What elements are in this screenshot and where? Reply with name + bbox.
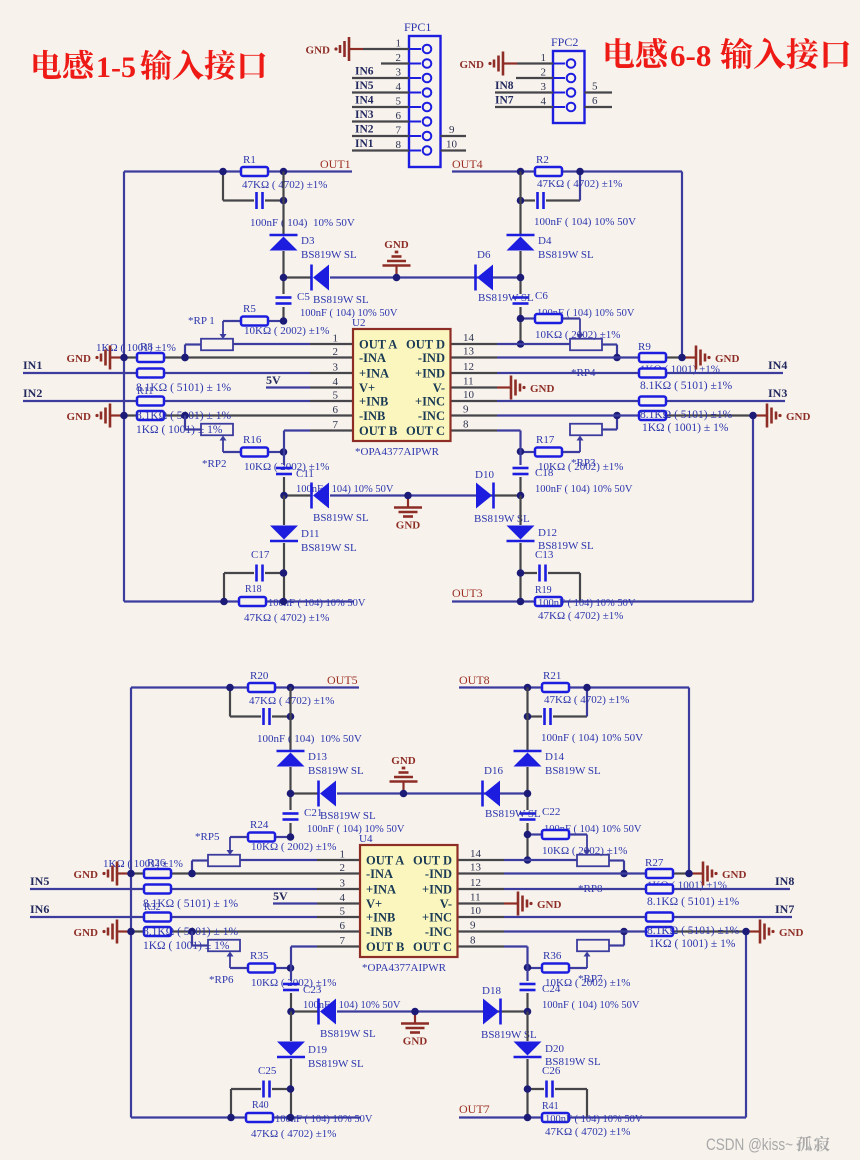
svg-text:1KΩ ( 1001) ± 1%: 1KΩ ( 1001) ± 1%: [642, 422, 729, 434]
svg-text:47KΩ ( 4702) ±1%: 47KΩ ( 4702) ±1%: [537, 178, 622, 190]
svg-text:100nF ( 104) 10% 50V: 100nF ( 104) 10% 50V: [250, 217, 355, 229]
label C17: [251, 549, 270, 561]
svg-text:13: 13: [463, 346, 475, 358]
svg-text:BS819W SL: BS819W SL: [545, 765, 601, 777]
wire right lower vertical: [752, 416, 754, 602]
svg-text:D16: D16: [484, 765, 503, 777]
svg-text:4: 4: [333, 376, 339, 388]
wire FPC2 pin3 IN8: [495, 91, 553, 93]
svg-text:+IND: +IND: [422, 883, 452, 897]
label R18 value2: [244, 612, 329, 624]
junction: [127, 870, 196, 878]
wire OUT5 top-left rail: [131, 686, 359, 688]
capacitor C6: [513, 298, 529, 304]
label D9 type: [313, 512, 369, 524]
label 8.1K row2: [143, 926, 238, 938]
op-amp U2 pin names: [359, 338, 445, 439]
wire FPC2 pin2: [516, 77, 553, 79]
junction: [524, 928, 628, 972]
label R32: [144, 902, 161, 913]
label R1: [243, 154, 256, 166]
label C25: [258, 1065, 277, 1077]
svg-text:OUT3: OUT3: [452, 586, 483, 600]
svg-text:5: 5: [396, 96, 402, 108]
junction: [181, 317, 287, 361]
label 8.1K row1: [136, 382, 231, 394]
svg-text:47KΩ ( 4702) ±1%: 47KΩ ( 4702) ±1%: [242, 179, 327, 191]
junction: [742, 928, 750, 936]
svg-text:IN7: IN7: [495, 95, 514, 107]
svg-text:OUT1: OUT1: [320, 157, 351, 171]
node OUT7: [459, 1102, 490, 1116]
svg-text:IN5: IN5: [355, 80, 374, 92]
svg-text:+INA: +INA: [359, 367, 389, 381]
wire left vertical ground bus: [123, 172, 125, 602]
node IN4 at FPC1: [355, 95, 374, 107]
svg-text:R9: R9: [638, 341, 651, 353]
label R41 value1: [545, 1114, 643, 1125]
resistor R8: [124, 353, 353, 362]
label R2 value: [537, 178, 622, 190]
ground left row1: [74, 862, 131, 886]
op-amp U2 pin numbers: [333, 332, 475, 431]
diode D4: [507, 235, 535, 251]
ground right row1: [689, 862, 747, 886]
label R9: [638, 341, 651, 353]
svg-text:5: 5: [592, 81, 598, 93]
connector FPC2 label: [551, 35, 578, 49]
svg-text:OUT8: OUT8: [459, 673, 490, 687]
wire left bus lower: [290, 1012, 292, 1118]
svg-text:6: 6: [592, 95, 598, 107]
label R5: [243, 303, 256, 315]
svg-text:4: 4: [541, 96, 547, 108]
label D17 type: [320, 1028, 376, 1040]
connector FPC2: [553, 51, 585, 123]
potentiometer *RP5: [192, 837, 240, 874]
label R35 value: [251, 977, 336, 989]
svg-text:R35: R35: [250, 950, 269, 962]
label D18 type: [481, 1029, 537, 1041]
capacitor C17 branch: [224, 573, 284, 602]
svg-text:GND: GND: [460, 59, 485, 71]
svg-text:10: 10: [470, 905, 482, 917]
svg-text:R17: R17: [536, 434, 555, 446]
svg-text:V+: V+: [366, 897, 382, 911]
svg-text:OUT C: OUT C: [413, 940, 452, 954]
node IN2 at FPC1: [355, 124, 374, 136]
label R20 value: [249, 695, 334, 707]
op-amp U4 pin numbers: [340, 848, 482, 947]
wire right bias bus upper: [519, 172, 521, 345]
resistor R35: [230, 964, 291, 973]
svg-text:R16: R16: [243, 434, 262, 446]
svg-text:5V: 5V: [273, 889, 288, 903]
svg-text:47KΩ ( 4702) ±1%: 47KΩ ( 4702) ±1%: [545, 1126, 630, 1138]
capacitor C1 branch wire: [223, 172, 284, 201]
potentiometer *RP 1: [185, 321, 233, 358]
svg-text:100nF ( 104) 10% 50V: 100nF ( 104) 10% 50V: [545, 1114, 643, 1125]
label C5 value: [300, 308, 398, 319]
junction: [120, 412, 189, 420]
resistor R13: [639, 411, 753, 420]
svg-text:BS819W SL: BS819W SL: [320, 1028, 376, 1040]
svg-text:GND: GND: [403, 1036, 428, 1048]
wire right bus lower: [526, 1012, 528, 1118]
svg-text:OUT C: OUT C: [406, 424, 445, 438]
junction: [227, 1085, 294, 1121]
svg-text:R27: R27: [645, 857, 664, 869]
node OUT1: [320, 157, 351, 171]
node IN3 at FPC1: [355, 109, 374, 121]
resistor R26: [131, 869, 360, 878]
node OUT5: [327, 673, 358, 687]
label C18: [535, 467, 554, 479]
label C5: [297, 291, 310, 303]
label *RP8: [578, 883, 603, 895]
svg-text:OUT B: OUT B: [359, 424, 397, 438]
node 5V: [266, 373, 281, 387]
potentiometer *RP8: [577, 835, 624, 874]
resistor R28: [144, 885, 171, 894]
svg-text:9: 9: [470, 920, 476, 932]
wire FPC1 pin10: [441, 149, 467, 151]
svg-text:2: 2: [541, 67, 547, 79]
label R19: [535, 585, 552, 596]
potentiometer *RP7: [577, 932, 624, 969]
potentiometer *RP3: [570, 416, 617, 453]
svg-text:3: 3: [340, 878, 346, 890]
svg-text:OUT A: OUT A: [366, 854, 404, 868]
resistor R16: [223, 448, 284, 457]
junction: [524, 684, 591, 721]
pin number 1: [541, 52, 547, 64]
svg-text:C18: C18: [535, 467, 554, 479]
label D20: [545, 1043, 564, 1055]
svg-text:GND: GND: [67, 411, 92, 423]
wire OUT7 bottom rail: [459, 1116, 746, 1118]
label D14: [545, 751, 564, 763]
svg-text:IN8: IN8: [495, 80, 514, 92]
wire IN1: [23, 372, 353, 374]
junction: [517, 315, 621, 362]
wire left bias bus upper: [289, 688, 291, 838]
diode D16: [483, 781, 501, 807]
wire left bus lower: [283, 496, 285, 602]
label R24: [250, 819, 269, 831]
capacitor C24: [520, 984, 536, 990]
svg-text:V-: V-: [440, 897, 452, 911]
node IN3: [768, 386, 787, 400]
label C6 value: [537, 308, 635, 319]
pin number 10: [446, 139, 458, 151]
capacitor C18: [513, 468, 529, 474]
label 8.1K row1: [143, 898, 238, 910]
diode D3: [270, 235, 298, 251]
wire IN2: [23, 400, 353, 402]
svg-text:R32: R32: [144, 902, 161, 913]
watermark CSDN @kiss~孤寂: [706, 1136, 830, 1154]
svg-text:8: 8: [470, 935, 476, 947]
svg-text:*RP5: *RP5: [195, 831, 220, 843]
wire FPC2 pin4 IN7: [495, 106, 553, 108]
label D11 type: [301, 542, 357, 554]
svg-text:1-5: 1-5: [96, 51, 136, 84]
svg-text:IN3: IN3: [768, 386, 787, 400]
svg-text:47KΩ ( 4702) ±1%: 47KΩ ( 4702) ±1%: [544, 694, 629, 706]
svg-text:IN4: IN4: [768, 358, 787, 372]
capacitor C19 branch wire: [230, 688, 291, 717]
node IN4: [768, 358, 787, 372]
label 1K right row2: [642, 422, 729, 434]
svg-text:OUT B: OUT B: [366, 940, 404, 954]
wire pin1: [233, 343, 353, 345]
label R18: [245, 584, 262, 595]
ground FPC2 pin1: [460, 52, 517, 76]
resistor R33: [646, 927, 746, 936]
label R24 value: [251, 841, 336, 853]
label D4 type: [538, 249, 594, 261]
label R20: [250, 670, 269, 682]
label R40: [252, 1100, 269, 1111]
diode D17: [319, 999, 337, 1025]
wire FPC1 pin7 IN2: [352, 135, 409, 137]
svg-text:5: 5: [340, 906, 346, 918]
wire FPC1 pin1: [363, 48, 409, 50]
label R19 value2: [538, 610, 623, 622]
node OUT4: [452, 157, 483, 171]
label D5 type: [313, 294, 369, 306]
svg-text:BS819W SL: BS819W SL: [301, 249, 357, 261]
svg-text:BS819W SL: BS819W SL: [485, 808, 541, 820]
pin number 7: [396, 125, 402, 137]
label 1K row2: [136, 424, 223, 436]
svg-text:-INC: -INC: [425, 925, 452, 939]
wire pin7 bus: [284, 431, 353, 496]
svg-text:6-8: 6-8: [670, 38, 711, 73]
svg-text:GND: GND: [786, 411, 811, 423]
diode D9: [312, 483, 330, 509]
svg-text:C26: C26: [542, 1065, 561, 1077]
svg-text:U2: U2: [352, 317, 365, 329]
pin number 5: [396, 96, 402, 108]
resistor R36: [528, 964, 588, 973]
pin number 4: [396, 81, 402, 93]
label R25 value: [542, 845, 627, 857]
label R1 value: [242, 179, 327, 191]
label U4 part: [362, 962, 447, 974]
label C11 value: [296, 484, 394, 495]
label D14 type: [545, 765, 601, 777]
label C6: [535, 290, 548, 302]
label R17 value: [538, 461, 623, 473]
svg-text:1KΩ ( 1001) ± 1%: 1KΩ ( 1001) ± 1%: [143, 940, 230, 952]
label D4: [538, 235, 552, 247]
svg-text:11: 11: [463, 376, 474, 388]
svg-text:OUT D: OUT D: [406, 338, 445, 352]
label 1K row2: [143, 940, 230, 952]
junction: [749, 412, 757, 420]
svg-text:10: 10: [446, 139, 458, 151]
label D19: [308, 1044, 327, 1056]
svg-text:7: 7: [396, 125, 402, 137]
label *RP3: [571, 457, 596, 469]
svg-text:BS819W SL: BS819W SL: [320, 810, 376, 822]
svg-text:-INC: -INC: [418, 409, 445, 423]
svg-text:FPC1: FPC1: [404, 20, 431, 34]
svg-text:R24: R24: [250, 819, 269, 831]
svg-text:D19: D19: [308, 1044, 327, 1056]
label D16: [484, 765, 503, 777]
label C2 value: [534, 216, 636, 228]
svg-text:IN2: IN2: [23, 386, 42, 400]
svg-text:GND: GND: [530, 383, 555, 395]
resistor R14: [639, 369, 666, 378]
svg-text:-INA: -INA: [366, 867, 393, 881]
diode D14: [514, 751, 542, 767]
svg-text:100nF ( 104) 10% 50V: 100nF ( 104) 10% 50V: [534, 216, 636, 228]
label R21: [543, 670, 561, 682]
label R16: [243, 434, 262, 446]
ground right row2: [753, 404, 811, 428]
label D11: [301, 528, 320, 540]
resistor R10: [137, 369, 164, 378]
svg-text:11: 11: [470, 892, 481, 904]
junction: [220, 569, 287, 605]
label D13: [308, 751, 327, 763]
svg-text:12: 12: [463, 361, 474, 373]
svg-text:12: 12: [470, 877, 481, 889]
svg-text:GND: GND: [74, 869, 99, 881]
label D16 type: [485, 808, 541, 820]
resistor R34: [646, 913, 673, 922]
svg-text:10: 10: [463, 389, 475, 401]
label *RP5: [195, 831, 220, 843]
svg-text:1KΩ ( 1001) ±1%: 1KΩ ( 1001) ±1%: [103, 858, 183, 870]
label R19 value1: [538, 598, 636, 609]
svg-text:1KΩ ( 1001) ±1%: 1KΩ ( 1001) ±1%: [96, 342, 176, 354]
wire pin8 bus: [451, 431, 521, 496]
svg-text:*RP2: *RP2: [202, 458, 226, 470]
svg-text:IN6: IN6: [355, 66, 374, 78]
label D12 type: [538, 540, 594, 552]
resistor R30: [131, 927, 360, 936]
svg-text:R36: R36: [543, 950, 562, 962]
svg-text:IN3: IN3: [355, 109, 374, 121]
op-amp U2: [353, 329, 451, 441]
svg-text:D20: D20: [545, 1043, 564, 1055]
diode D10: [476, 483, 494, 509]
wire mid upper row: [284, 276, 521, 278]
svg-text:7: 7: [333, 419, 339, 431]
svg-text:10KΩ ( 2002) ±1%: 10KΩ ( 2002) ±1%: [251, 841, 336, 853]
label D19 type: [308, 1058, 364, 1070]
svg-text:IN8: IN8: [775, 874, 794, 888]
svg-text:IN1: IN1: [23, 358, 42, 372]
pin number 3: [541, 81, 547, 93]
label C21 value: [307, 824, 405, 835]
label R16 value: [244, 461, 329, 473]
capacitor C13 branch: [521, 573, 581, 602]
svg-text:*RP6: *RP6: [209, 974, 234, 986]
svg-text:3: 3: [333, 362, 339, 374]
label R27 value: [647, 880, 727, 892]
ground right row1: [682, 346, 740, 370]
ground mid upper: [390, 755, 418, 794]
label 8.1K row2: [136, 410, 231, 422]
resistor R19: [535, 597, 562, 606]
svg-text:-INA: -INA: [359, 351, 386, 365]
svg-text:-INB: -INB: [366, 925, 392, 939]
label R5 value: [244, 325, 329, 337]
svg-text:OUT7: OUT7: [459, 1102, 490, 1116]
svg-text:BS819W SL: BS819W SL: [538, 249, 594, 261]
wire 5V: [266, 386, 353, 388]
junction: [280, 274, 525, 282]
svg-text:100nF ( 104) 10% 50V: 100nF ( 104) 10% 50V: [542, 1000, 640, 1011]
svg-text:10KΩ ( 2002) ±1%: 10KΩ ( 2002) ±1%: [244, 325, 329, 337]
svg-text:GND: GND: [537, 899, 562, 911]
label C21: [304, 807, 322, 819]
node IN1 at FPC1: [355, 138, 374, 150]
svg-text:-IND: -IND: [425, 867, 452, 881]
wire IN5: [30, 888, 360, 890]
svg-text:GND: GND: [715, 353, 740, 365]
svg-text:U4: U4: [359, 833, 373, 845]
potentiometer *RP4: [570, 319, 617, 358]
wire FPC1 pin2: [381, 62, 409, 64]
svg-text:R18: R18: [245, 584, 262, 595]
resistor R18: [239, 597, 266, 606]
label D13 type: [308, 765, 364, 777]
resistor R41: [542, 1113, 569, 1122]
label C22 value: [544, 824, 642, 835]
label C23: [303, 984, 322, 996]
resistor R24: [230, 833, 291, 842]
label C26: [542, 1065, 561, 1077]
node IN7: [775, 902, 794, 916]
wire right bus lower: [519, 496, 521, 602]
resistor R2: [535, 167, 562, 176]
label C13: [535, 549, 554, 561]
junction: [219, 168, 287, 205]
capacitor C26: [547, 1081, 553, 1098]
svg-text:BS819W SL: BS819W SL: [301, 542, 357, 554]
svg-text:8.1KΩ ( 5101) ±1%: 8.1KΩ ( 5101) ±1%: [640, 380, 733, 392]
label *RP7: [578, 973, 603, 985]
svg-text:R21: R21: [543, 670, 561, 682]
junction: [120, 354, 189, 362]
svg-text:C5: C5: [297, 291, 310, 303]
svg-text:GND: GND: [306, 45, 331, 57]
junction: [287, 1008, 531, 1016]
resistor R17: [521, 448, 581, 457]
label C19 value: [257, 733, 362, 745]
svg-text:OUT4: OUT4: [452, 157, 483, 171]
wire V- pin11: [451, 386, 498, 388]
svg-text:C17: C17: [251, 549, 270, 561]
wire left bias bus upper: [282, 172, 284, 322]
svg-text:5V: 5V: [266, 373, 281, 387]
svg-text:7: 7: [340, 935, 346, 947]
svg-text:OUT D: OUT D: [413, 854, 452, 868]
label C11: [296, 468, 314, 480]
capacitor C11: [276, 468, 292, 474]
op-amp U4 pin names: [366, 854, 452, 955]
label R27: [645, 857, 664, 869]
svg-text:14: 14: [463, 332, 475, 344]
label R8 value: [96, 342, 176, 354]
